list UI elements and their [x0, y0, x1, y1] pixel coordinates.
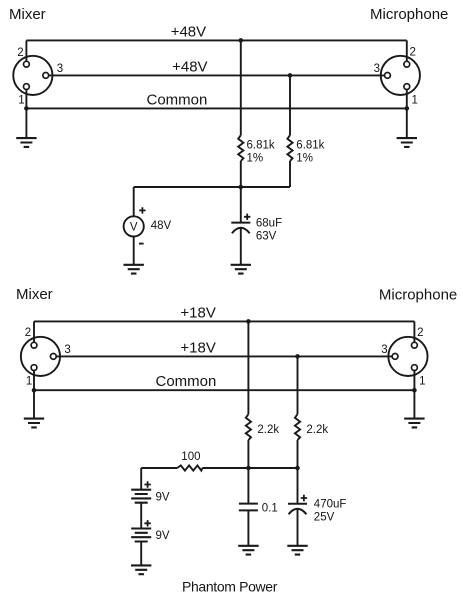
- svg-text:6.81k: 6.81k: [247, 139, 275, 151]
- svg-text:Common: Common: [156, 373, 217, 390]
- svg-text:2: 2: [410, 47, 416, 59]
- svg-text:9V: 9V: [156, 491, 170, 503]
- svg-text:2.2k: 2.2k: [257, 424, 279, 436]
- svg-text:2: 2: [25, 327, 31, 339]
- svg-text:3: 3: [64, 344, 70, 356]
- svg-text:3: 3: [374, 63, 380, 75]
- svg-text:Mixer: Mixer: [9, 6, 46, 23]
- svg-text:2.2k: 2.2k: [306, 424, 328, 436]
- svg-text:+48V: +48V: [171, 23, 206, 40]
- svg-text:3: 3: [381, 344, 387, 356]
- svg-text:Microphone: Microphone: [370, 6, 448, 23]
- svg-text:63V: 63V: [256, 231, 277, 243]
- svg-text:470uF: 470uF: [314, 498, 347, 510]
- svg-text:1: 1: [18, 95, 24, 107]
- svg-text:+48V: +48V: [172, 58, 207, 75]
- svg-text:68uF: 68uF: [256, 218, 282, 230]
- svg-text:48V: 48V: [151, 220, 172, 232]
- svg-text:6.81k: 6.81k: [296, 139, 324, 151]
- svg-text:Microphone: Microphone: [379, 286, 457, 303]
- svg-text:1: 1: [26, 376, 32, 388]
- svg-text:+18V: +18V: [180, 339, 215, 356]
- svg-text:2: 2: [17, 47, 23, 59]
- svg-text:25V: 25V: [314, 511, 335, 523]
- svg-text:1: 1: [412, 95, 418, 107]
- svg-text:1%: 1%: [247, 152, 264, 164]
- svg-text:0.1: 0.1: [262, 502, 278, 514]
- svg-text:V: V: [130, 221, 138, 233]
- svg-text:100: 100: [181, 451, 200, 463]
- svg-text:Mixer: Mixer: [16, 286, 53, 303]
- svg-text:1: 1: [419, 376, 425, 388]
- svg-text:Common: Common: [147, 92, 208, 109]
- svg-text:Phantom Power: Phantom Power: [182, 579, 278, 595]
- svg-text:+18V: +18V: [180, 304, 215, 321]
- svg-text:9V: 9V: [156, 530, 170, 542]
- svg-text:1%: 1%: [296, 152, 313, 164]
- svg-text:2: 2: [417, 327, 423, 339]
- svg-text:3: 3: [57, 63, 63, 75]
